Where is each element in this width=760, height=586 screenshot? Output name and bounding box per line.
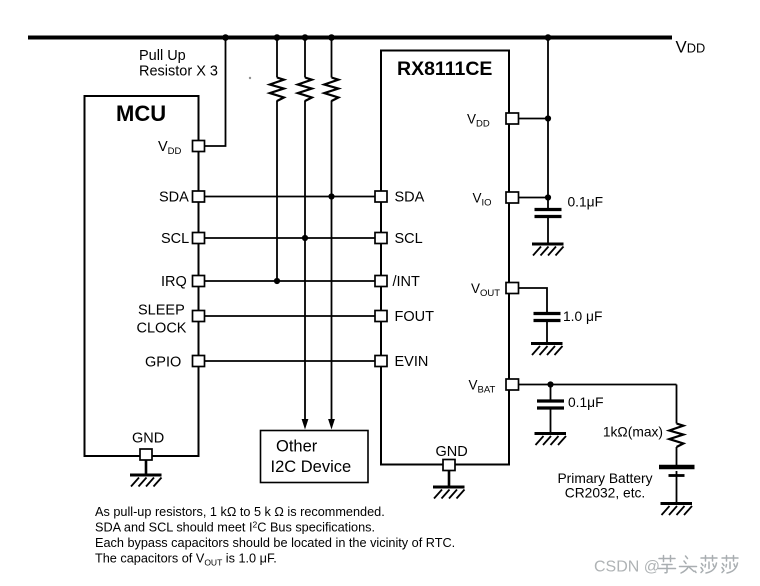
svg-text:IRQ: IRQ bbox=[161, 274, 187, 290]
svg-text:CR2032, etc.: CR2032, etc. bbox=[565, 486, 646, 501]
svg-text:The capacitors of VOUT is 1.0: The capacitors of VOUT is 1.0 μF. bbox=[95, 552, 277, 568]
svg-text:Resistor X 3: Resistor X 3 bbox=[139, 64, 218, 80]
svg-text:SDA and SCL should meet I2C Bu: SDA and SCL should meet I2C Bus specific… bbox=[95, 520, 375, 535]
svg-text:I2C Device: I2C Device bbox=[271, 458, 352, 476]
svg-text:0.1μF: 0.1μF bbox=[568, 395, 604, 410]
svg-text:Primary Battery: Primary Battery bbox=[557, 471, 652, 486]
svg-text:EVIN: EVIN bbox=[395, 354, 429, 370]
svg-text:CLOCK: CLOCK bbox=[137, 321, 187, 337]
svg-text:MCU: MCU bbox=[116, 101, 166, 126]
svg-text:SDA: SDA bbox=[159, 190, 189, 206]
svg-text:CSDN @: CSDN @ bbox=[594, 559, 660, 576]
svg-text:/INT: /INT bbox=[393, 274, 421, 290]
svg-text:Other: Other bbox=[276, 438, 318, 456]
svg-text:As pull-up resistors, 1 kΩ to: As pull-up resistors, 1 kΩ to 5 k Ω is r… bbox=[95, 505, 385, 519]
svg-text:SCL: SCL bbox=[395, 231, 423, 247]
svg-text:VBAT: VBAT bbox=[469, 378, 496, 396]
svg-text:0.1μF: 0.1μF bbox=[568, 195, 604, 210]
svg-text:VDD: VDD bbox=[467, 112, 490, 130]
svg-text:VOUT: VOUT bbox=[471, 281, 500, 299]
svg-text:Each bypass capacitors should: Each bypass capacitors should be located… bbox=[95, 536, 455, 550]
svg-text:GND: GND bbox=[132, 431, 164, 447]
svg-text:GND: GND bbox=[436, 444, 468, 460]
svg-text:SDA: SDA bbox=[395, 190, 425, 206]
svg-text:Pull Up: Pull Up bbox=[139, 48, 186, 64]
svg-text:RX8111CE: RX8111CE bbox=[397, 58, 492, 80]
svg-text:SLEEP: SLEEP bbox=[138, 303, 185, 319]
svg-text:GPIO: GPIO bbox=[145, 355, 181, 371]
svg-text:FOUT: FOUT bbox=[395, 309, 435, 325]
svg-text:VDD: VDD bbox=[676, 37, 706, 56]
svg-text:1.0 μF: 1.0 μF bbox=[563, 309, 602, 324]
svg-text:1kΩ(max): 1kΩ(max) bbox=[603, 425, 663, 440]
svg-text:VIO: VIO bbox=[473, 191, 492, 209]
svg-text:SCL: SCL bbox=[161, 231, 189, 247]
